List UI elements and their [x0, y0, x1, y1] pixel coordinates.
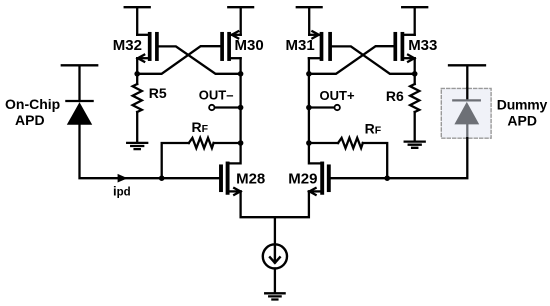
resistor RF (left feedback) [162, 138, 241, 178]
node dot (RF right / M29 gate) [384, 175, 390, 181]
current source I1 [263, 244, 287, 268]
wire through dummy box [466, 88, 468, 100]
svg-text:OUT+: OUT+ [320, 88, 355, 103]
wire mid-right vertical (M31 source / OUT+ / RF / M29 drain) [309, 58, 322, 163]
supply terminal (above M32) [125, 7, 150, 35]
wire cross-couple node D to M31 gate [331, 46, 415, 73]
ground (under R5) [127, 143, 147, 149]
terminal OUT+ circle [335, 105, 340, 110]
wire tail to current source [274, 217, 276, 244]
resistor R5 [133, 74, 142, 142]
wire M32 drain lead [137, 34, 150, 36]
supply terminal (above Dummy APD) [449, 65, 485, 100]
transistor M30 [222, 31, 241, 59]
svg-text:On-Chip: On-Chip [5, 96, 60, 112]
node dot (RF right junction) [306, 140, 312, 146]
wire M32 source to node [136, 58, 138, 74]
wire M33 source to node [414, 58, 416, 74]
svg-text:R6: R6 [386, 88, 404, 104]
svg-text:OUT–: OUT– [199, 88, 234, 103]
wire tail (M28/M29 sources) [241, 191, 309, 217]
svg-text:ipd: ipd [113, 183, 131, 198]
supply terminal (above M31) [297, 7, 322, 35]
svg-text:M32: M32 [113, 37, 142, 54]
svg-text:M33: M33 [408, 37, 437, 54]
transistor M32 [137, 34, 157, 62]
terminal OUT- circle [209, 105, 214, 110]
svg-text:APD: APD [15, 112, 45, 128]
node dot (RF left junction) [238, 140, 244, 146]
transistor M29 [309, 164, 329, 195]
node dot (OUT- tap) [238, 105, 244, 111]
wire OUT- stub [215, 106, 241, 108]
resistor RF (right feedback) [309, 138, 387, 178]
wire mid-left vertical (M30 source / OUT- / RF / M28 drain) [228, 58, 241, 163]
transistor M28 [221, 164, 241, 195]
supply terminal (above M33) [402, 7, 427, 35]
ground (under R6) [405, 142, 425, 148]
node dot (M32/R5) [134, 71, 140, 77]
photodiode Dummy APD (gray) [453, 100, 480, 124]
svg-text:M31: M31 [286, 37, 315, 54]
svg-text:M29: M29 [288, 170, 317, 187]
resistor R6 [410, 74, 419, 141]
svg-text:M30: M30 [235, 37, 264, 54]
transistor M33 [395, 34, 414, 62]
node dot (M31 source) [306, 71, 312, 77]
node dot (M33/R6) [412, 71, 418, 77]
supply terminal (above On-Chip APD) [62, 65, 97, 101]
wire cross-couple node A to M30 gate [137, 46, 220, 74]
wire current source to ground [274, 269, 276, 294]
wire dummy APD to M29 gate [329, 138, 468, 178]
svg-text:Dummy: Dummy [497, 97, 548, 113]
dashed box (Dummy APD) [441, 88, 491, 138]
svg-text:APD: APD [507, 113, 537, 129]
wire cross-couple node B to M32 gate [159, 46, 241, 73]
wire photodiode to M28 gate (input node) [80, 125, 222, 178]
photodiode On-Chip APD [66, 101, 92, 125]
node dot (M30 source) [238, 71, 244, 77]
supply terminal (above M30) [228, 7, 253, 35]
wire cross-couple node C to M33 gate [309, 46, 395, 74]
svg-text:M28: M28 [236, 170, 265, 187]
node dot (OUT+ tap) [306, 105, 312, 111]
current arrow ipd [118, 174, 128, 183]
transistor M31 [309, 31, 330, 59]
wire OUT+ stub [309, 106, 335, 108]
ground (bottom) [265, 293, 284, 299]
svg-text:R5: R5 [149, 85, 167, 101]
node dot (input / RF left) [159, 175, 165, 181]
